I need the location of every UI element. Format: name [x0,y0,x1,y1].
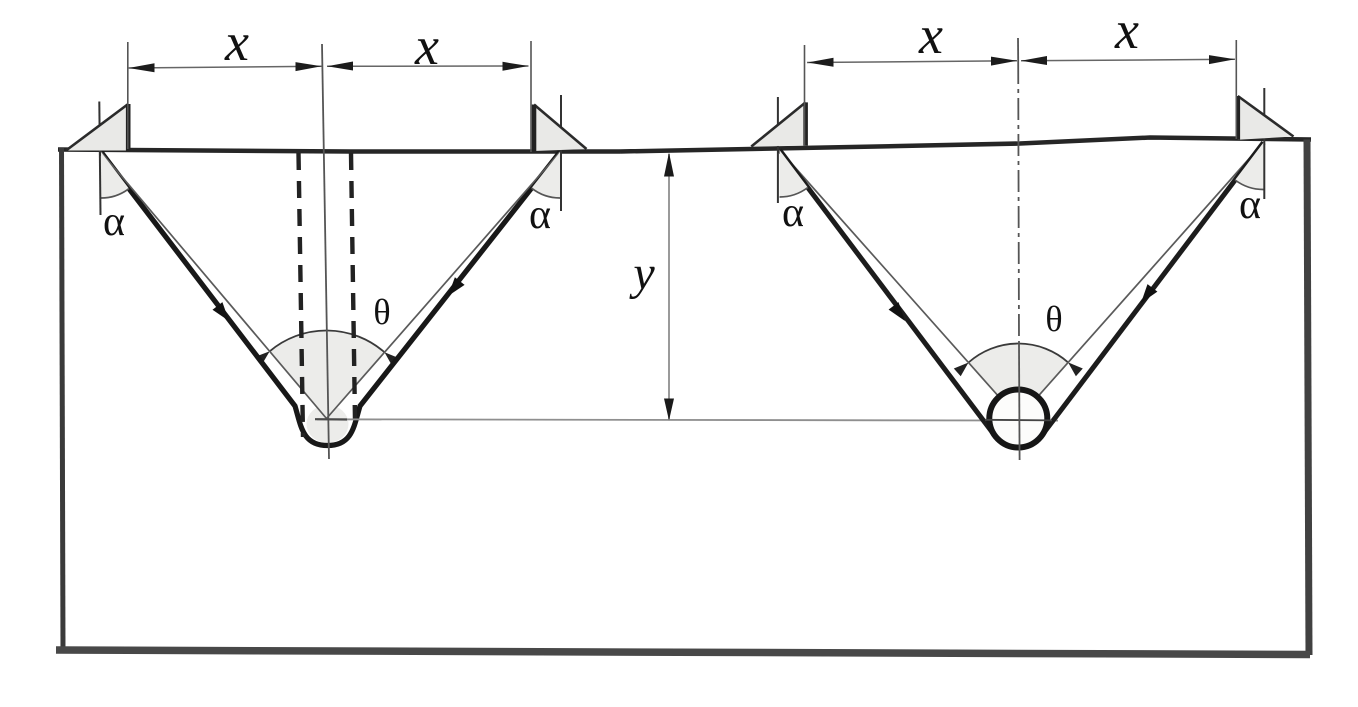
right dashed vertical (left V) [351,153,355,420]
extension line right (x dim, right V) [1235,40,1237,139]
extension line right (x dim, left V) [530,41,532,152]
right V centre line top [1017,38,1019,62]
anchor wedge triangle at right V right anchor [1238,96,1294,140]
svg-text:α: α [103,199,125,245]
left dashed vertical (left V) [299,153,304,437]
svg-text:α: α [529,192,551,238]
ground block top surface (right half, slightly tilted) [620,138,1311,152]
x dimension line right segment (left V) [327,65,529,67]
left V thin ray from right anchor to apex [327,152,561,419]
svg-text:x: x [1114,0,1139,60]
left V centre line [322,44,329,459]
right V centre line dash-dot [1017,62,1020,345]
arrow on right V left wire [889,302,905,321]
crosshair horizontal in circle [985,419,1052,422]
theta arc arrowhead right [385,352,400,366]
svg-text:x: x [918,5,943,65]
svg-text:α: α [1239,182,1261,228]
arrow on left V left wire [213,302,230,321]
svg-text:x: x [414,16,439,76]
x dim arrow at 1017 [991,57,1017,66]
x dimension line left segment (right V) [807,61,1017,63]
right V left wire [780,150,996,436]
x dim arrow at 807 [808,58,834,67]
svg-text:y: y [628,247,655,300]
x dim arrow at 528 [503,62,529,71]
horizontal reference line from left apex to right circle [317,419,1058,420]
arrow on right V right wire [1141,284,1157,303]
alpha angle wedge at left V right anchor [532,152,561,198]
alpha angle wedge at left V left anchor [101,152,129,198]
x dim arrow at 128 [129,63,155,72]
extension line left (x dim, right V) [804,45,806,146]
theta arc arrowhead left [255,351,270,365]
vertical reference through right V left anchor [777,97,779,203]
x dimension line right segment (right V) [1021,59,1235,61]
vertical reference through left V right anchor [560,95,562,211]
svg-text:θ: θ [373,292,390,332]
U-bend interior fill (left V) [307,405,349,443]
y dimension line [668,154,670,420]
dark tick at left apex [315,418,347,420]
x dimension line left segment (left V) [128,66,322,68]
extension line left (x dim, left V) [127,42,129,149]
theta angle arc (right V) [969,344,1069,363]
right V thin ray from left anchor through circle centre [780,150,1029,431]
ground block top surface (left half) [58,150,620,152]
right V thin ray from right anchor through circle centre [1008,143,1264,431]
circle pulley at right V apex [989,390,1047,448]
x dim arrow at 1021 [1021,56,1047,65]
arrow on left V right wire [448,277,465,296]
y dim arrow down [664,399,674,421]
x dim arrow at 321 [296,62,322,71]
x dim arrow at 1235 [1209,55,1235,64]
theta angle sector fill (right V) [969,344,1069,419]
anchor wedge triangle at left V left anchor [66,104,128,151]
left V thin ray from left anchor to apex [101,152,327,419]
vertical reference through right V right anchor [1263,88,1265,199]
left V wire (string bent in narrow U at bottom) [101,152,560,446]
anchor wedge triangle at right V left anchor [751,102,805,146]
theta arc arrowhead right (right V) [1068,362,1083,376]
anchor wedge triangle at left V right anchor [534,105,587,152]
svg-text:x: x [224,12,249,72]
svg-text:θ: θ [1045,299,1062,339]
right V centre line through circle [1018,345,1021,460]
vertical reference through left V left anchor [99,102,100,216]
ground block right edge [1307,140,1309,656]
theta arc arrowhead left (right V) [954,363,969,377]
alpha angle wedge at right V left anchor [780,150,808,197]
theta angle arc (left V) [270,330,385,352]
theta angle sector fill (left V) [270,330,385,418]
ground block bottom edge [56,650,1310,655]
ground block left edge [62,148,64,652]
alpha angle wedge at right V right anchor [1235,143,1263,190]
svg-text:α: α [782,190,804,236]
right V right wire [1041,143,1263,437]
y dim arrow up [664,153,674,177]
x dim arrow at 327 [327,62,353,71]
